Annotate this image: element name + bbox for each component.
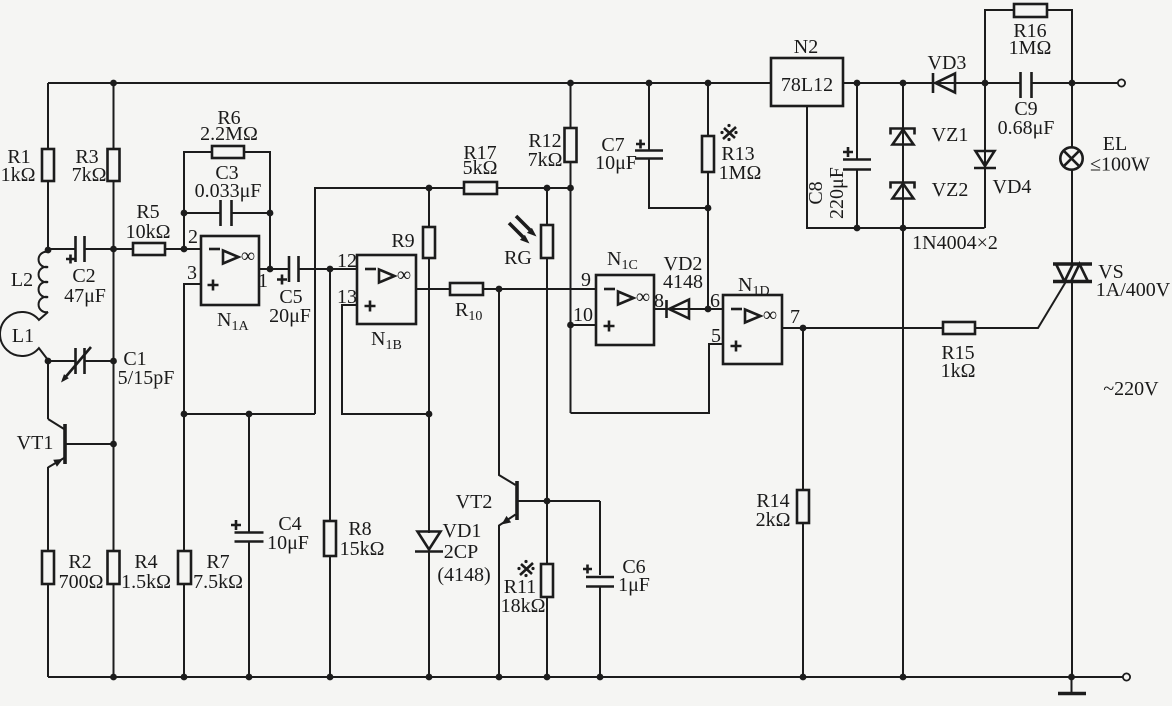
svg-text:VD3: VD3 <box>928 52 967 74</box>
node bottom VT2 <box>496 674 503 681</box>
zener diode VZ1 <box>891 124 969 146</box>
wire x48 R1 branch <box>47 83 49 149</box>
wire N1B pin13 loop <box>342 305 429 414</box>
svg-text:R9: R9 <box>391 230 414 252</box>
wire R11 to bottom <box>546 597 548 677</box>
svg-text:1kΩ: 1kΩ <box>941 360 976 382</box>
wire x803 R14 top <box>802 328 804 490</box>
capacitor C7 <box>595 134 663 174</box>
resistor R1 <box>1 146 54 186</box>
node C3 left <box>181 210 188 217</box>
op-amp N1A <box>187 226 268 334</box>
wire R1 to C2 node <box>47 181 49 250</box>
svg-text:7.5kΩ: 7.5kΩ <box>193 571 243 593</box>
diode VD2 <box>654 253 703 319</box>
capacitor C8 <box>805 147 871 219</box>
wire top rail left <box>48 82 771 84</box>
svg-text:18kΩ: 18kΩ <box>501 595 546 617</box>
op-amp N1C <box>573 248 654 345</box>
resistor R16 <box>1009 4 1052 59</box>
label 220V <box>1103 378 1159 400</box>
svg-text:(4148): (4148) <box>437 564 490 586</box>
wire N1A out to C5 <box>259 268 289 270</box>
node R17 left <box>426 185 433 192</box>
wire C4 to bottom <box>248 542 250 678</box>
wire main input y249 C2 left <box>48 248 76 250</box>
wire R10 to N1C pin9 <box>483 288 596 290</box>
triac VS <box>1053 261 1171 301</box>
svg-text:8: 8 <box>654 290 664 312</box>
node top rail VZ1 <box>900 80 907 87</box>
node N1A out <box>267 266 274 273</box>
wire R15 to triac gate <box>975 282 1066 329</box>
svg-text:20μF: 20μF <box>269 305 311 327</box>
wire x184 R7 branch <box>183 414 185 551</box>
wire x985 VD4 branch <box>984 83 986 228</box>
node R12 bottom <box>567 185 574 192</box>
node C3 right <box>267 210 274 217</box>
wire x1072 lamp branch <box>1071 83 1073 148</box>
svg-text:2kΩ: 2kΩ <box>756 509 791 531</box>
node main R3 <box>110 246 117 253</box>
terminal top right <box>1118 79 1125 86</box>
svg-text:VT2: VT2 <box>456 491 493 513</box>
loop antenna L1 <box>0 312 48 360</box>
node top rail R16 left <box>982 80 989 87</box>
svg-text:2CP: 2CP <box>444 541 478 563</box>
wire x113 R3 bottom to main node <box>113 181 115 249</box>
node C8 bottom <box>854 225 861 232</box>
node pin10 <box>567 322 574 329</box>
svg-text:7: 7 <box>790 306 800 328</box>
svg-text:10μF: 10μF <box>595 152 637 174</box>
wire x903 zener chain <box>902 83 904 228</box>
svg-text:∞: ∞ <box>763 304 777 326</box>
svg-text:VD4: VD4 <box>993 176 1032 198</box>
capacitor C6 <box>583 556 650 596</box>
svg-text:1kΩ: 1kΩ <box>1 164 36 186</box>
wire L1 node to VT1 collector <box>47 361 49 419</box>
wire x113 node to C1 <box>113 249 115 361</box>
svg-text:7kΩ: 7kΩ <box>528 149 563 171</box>
wire x499 VT2 collector riser <box>499 289 516 485</box>
wire x857 C8 top <box>856 83 858 160</box>
wire x708 R13 bottom <box>707 172 709 208</box>
node N1D out <box>800 325 807 332</box>
node rail1 C4 <box>246 411 253 418</box>
svg-text:L1: L1 <box>12 325 34 347</box>
wire N1C out through VD2 <box>654 308 723 310</box>
wire VT2 base to C6 <box>519 500 601 502</box>
wire main input y249 C2 to R5 <box>85 248 134 250</box>
inductor L2 <box>11 250 48 312</box>
wire R14 to bottom <box>802 523 804 677</box>
resistor R9 <box>391 227 435 258</box>
node VD2 pin6 <box>705 306 712 313</box>
svg-text:9: 9 <box>581 269 591 291</box>
svg-text:15kΩ: 15kΩ <box>340 538 385 560</box>
node bottom VD1 <box>426 674 433 681</box>
wire x708 R13 top <box>707 83 709 136</box>
wire top rail to terminal <box>1032 82 1118 84</box>
node VT2 base C6 <box>544 498 551 505</box>
wire x547 RG top <box>546 188 548 225</box>
resistor R14 <box>756 490 809 531</box>
svg-text:1MΩ: 1MΩ <box>1009 37 1052 59</box>
svg-text:1A/400V: 1A/400V <box>1096 279 1171 301</box>
resistor R7 <box>178 551 243 593</box>
node bottom R8 <box>327 674 334 681</box>
resistor R11 <box>501 560 553 617</box>
wire x570 R12 node to pin10 <box>570 188 572 413</box>
svg-text:N2: N2 <box>794 36 818 58</box>
svg-text:∞: ∞ <box>397 264 411 286</box>
wire C5 to N1B pin12 <box>299 268 358 270</box>
regulator N2 78L12 <box>771 36 843 106</box>
svg-text:3: 3 <box>187 262 197 284</box>
wire R2 to bottom rail <box>47 584 49 677</box>
wire x315 riser <box>315 188 464 414</box>
node top rail R3 <box>110 80 117 87</box>
wire top rail right <box>843 82 1021 84</box>
zener diode VZ2 <box>891 179 969 201</box>
resistor R8 <box>324 518 384 560</box>
wire x113 C1 to VT1 base <box>113 361 115 444</box>
resistor R10 <box>450 283 483 324</box>
svg-text:1: 1 <box>258 270 268 292</box>
wire C3 right branch <box>232 212 271 214</box>
resistor R5 <box>126 201 171 255</box>
node top rail R13 <box>705 80 712 87</box>
svg-text:R4: R4 <box>134 551 157 573</box>
wire R7 to bottom <box>183 584 185 677</box>
wire N1C pin10 stub <box>571 324 597 326</box>
wire bottom rail <box>48 676 1123 678</box>
resistor R15 <box>941 322 976 382</box>
wire R5 to N1A pin2 <box>165 248 201 250</box>
op-amp N1D <box>710 274 800 364</box>
resistor R12 <box>528 128 577 171</box>
node bottom C4 <box>246 674 253 681</box>
resistor R6 <box>200 107 258 158</box>
resistor R2 <box>42 551 103 593</box>
svg-text:7kΩ: 7kΩ <box>72 164 107 186</box>
node bottom R11 <box>544 674 551 681</box>
svg-text:≤100W: ≤100W <box>1090 154 1150 176</box>
svg-text:0.033μF: 0.033μF <box>195 180 262 202</box>
svg-text:R5: R5 <box>136 201 159 223</box>
wire N1B out to R10 <box>416 288 450 290</box>
node bottom C6 <box>597 674 604 681</box>
wire N1D out to R15 <box>782 327 943 329</box>
capacitor C3 <box>195 162 262 226</box>
wire VT1 emitter to R2 <box>47 467 49 551</box>
wire x330 R8 branch <box>329 269 331 521</box>
wire R16 loop <box>985 10 1014 83</box>
wire C7 bottom to R13 node <box>649 159 708 209</box>
svg-text:6: 6 <box>710 290 720 312</box>
photoresistor RG <box>504 216 553 269</box>
node rail1 left <box>181 411 188 418</box>
node top rail C7 <box>646 80 653 87</box>
op-amp N1B <box>337 250 416 353</box>
wire x547 base node to R11 <box>546 501 548 564</box>
svg-text:VZ2: VZ2 <box>932 179 969 201</box>
node C1 right <box>110 358 117 365</box>
resistor R17 <box>463 142 498 194</box>
resistor R3 <box>72 146 120 186</box>
lamp EL <box>1060 133 1150 176</box>
transistor VT2 <box>456 481 517 525</box>
capacitor C9 <box>998 72 1055 139</box>
wire N2 ground drop <box>807 106 985 228</box>
wire feedback bracket x184 <box>184 152 212 249</box>
node bottom VS ground <box>1068 674 1075 681</box>
node bottom R7 <box>181 674 188 681</box>
resistor R4 <box>108 551 171 593</box>
wire x113 R3 top <box>113 83 115 149</box>
terminal bottom right <box>1123 673 1130 680</box>
wire VT2 emitter drop <box>499 515 516 678</box>
wire R16 loop right <box>1047 10 1072 83</box>
wire x708 R13 node to pin6 <box>707 208 709 309</box>
node VT1 base <box>110 441 117 448</box>
svg-text:R8: R8 <box>348 518 371 540</box>
svg-text:5/15pF: 5/15pF <box>118 367 175 389</box>
svg-text:12: 12 <box>337 250 357 272</box>
transistor VT1 <box>17 419 114 468</box>
wire x429 R9 top <box>428 188 430 227</box>
svg-text:C8: C8 <box>805 181 827 204</box>
svg-text:1N4004×2: 1N4004×2 <box>912 232 998 254</box>
svg-text:10μF: 10μF <box>267 532 309 554</box>
node VZ2 bottom <box>900 225 907 232</box>
node bottom VZ <box>900 674 907 681</box>
wire R4 to bottom rail <box>113 584 115 677</box>
wire lamp to triac <box>1071 170 1073 264</box>
svg-text:78L12: 78L12 <box>781 74 833 96</box>
wire VD1 to bottom <box>428 550 430 677</box>
label 1N4004 <box>912 232 998 254</box>
capacitor C2 <box>64 236 106 307</box>
svg-text:1.5kΩ: 1.5kΩ <box>121 571 171 593</box>
node C5 out <box>327 266 334 273</box>
svg-text:700Ω: 700Ω <box>59 571 104 593</box>
svg-text:5kΩ: 5kΩ <box>463 157 498 179</box>
svg-text:220μF: 220μF <box>826 167 848 219</box>
svg-text:47μF: 47μF <box>64 285 106 307</box>
wire R6 right to x270 <box>244 152 270 269</box>
wire N1A pin3 loop <box>184 284 201 414</box>
wire x429 R9 bottom to rail2 <box>428 258 430 414</box>
svg-text:RG: RG <box>504 247 532 269</box>
svg-text:1MΩ: 1MΩ <box>719 162 762 184</box>
node RG top <box>544 185 551 192</box>
svg-text:~220V: ~220V <box>1103 378 1159 400</box>
variable capacitor C1 <box>48 347 174 389</box>
diode VD3 <box>928 52 967 93</box>
svg-text:4148: 4148 <box>663 271 703 293</box>
svg-text:2: 2 <box>188 226 198 248</box>
node bottom R14 <box>800 674 807 681</box>
wire R17 right to R12 bottom <box>497 187 571 189</box>
node C2 L2 <box>45 247 52 254</box>
svg-text:1μF: 1μF <box>618 574 650 596</box>
wire x113 VT1 base to R4 <box>113 444 115 551</box>
svg-text:VZ1: VZ1 <box>932 124 969 146</box>
svg-text:5: 5 <box>711 325 721 347</box>
wire rail3 y413 to pin5 <box>571 344 724 413</box>
svg-text:C2: C2 <box>72 265 95 287</box>
svg-text:10: 10 <box>573 304 593 326</box>
svg-text:R2: R2 <box>68 551 91 573</box>
wire C8 bottom <box>856 170 858 229</box>
diode VD4 <box>974 151 1031 198</box>
node top rail R12 <box>567 80 574 87</box>
svg-text:EL: EL <box>1103 133 1127 155</box>
node top rail C8 <box>854 80 861 87</box>
capacitor C5 <box>269 256 311 327</box>
node R10 out <box>496 286 503 293</box>
diode VD1 <box>415 520 491 586</box>
svg-text:0.68μF: 0.68μF <box>998 117 1055 139</box>
wire x903 to bottom rail <box>902 228 904 677</box>
svg-text:L2: L2 <box>11 269 33 291</box>
wire R8 to bottom <box>329 556 331 677</box>
node pin2 <box>181 246 188 253</box>
capacitor C4 <box>231 513 309 554</box>
svg-text:2.2MΩ: 2.2MΩ <box>200 123 258 145</box>
wire triac to bottom <box>1071 282 1073 678</box>
ground <box>1058 677 1086 694</box>
node rail2 R9 <box>426 411 433 418</box>
wire x547 RG bottom to base node <box>546 258 548 501</box>
svg-text:10kΩ: 10kΩ <box>126 221 171 243</box>
wire x429 rail2 to VD1 <box>428 414 430 533</box>
svg-text:∞: ∞ <box>636 286 650 308</box>
wire rail1 y414 <box>184 413 315 415</box>
node bottom R4 <box>110 674 117 681</box>
wire x570 R12 top <box>570 83 572 128</box>
wire x600 C6 top <box>599 501 601 575</box>
wire x649 C7 top <box>648 83 650 151</box>
node top rail R16 right <box>1069 80 1076 87</box>
node C7 R13 <box>705 205 712 212</box>
svg-text:R7: R7 <box>206 551 229 573</box>
svg-text:13: 13 <box>337 286 357 308</box>
wire x570 R12 bottom <box>570 162 572 188</box>
svg-text:VT1: VT1 <box>17 432 54 454</box>
resistor R13 <box>702 124 761 184</box>
svg-text:VD1: VD1 <box>443 520 482 542</box>
wire C6 to bottom <box>599 587 601 678</box>
wire C3 left branch <box>184 212 221 214</box>
node L1 C1 <box>45 358 52 365</box>
svg-text:∞: ∞ <box>241 245 255 267</box>
wire x249 C4 branch <box>248 414 250 533</box>
